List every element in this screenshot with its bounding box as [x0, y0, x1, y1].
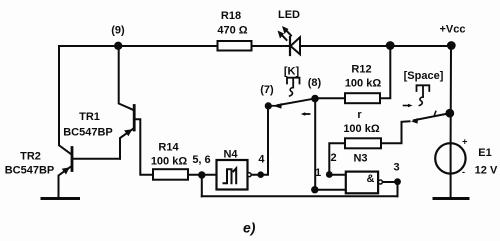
E1 source circle — [435, 143, 465, 173]
wire top rail left segment — [59, 45, 218, 47]
svg-text:TR2: TR2 — [20, 151, 41, 163]
node dot N3 pin1 — [311, 186, 318, 193]
wire bottom rail — [202, 195, 398, 197]
wire TR1 emitter — [120, 129, 134, 159]
svg-text:R12: R12 — [351, 64, 371, 76]
wire top rail LED to +Vcc — [252, 45, 291, 47]
LED arrow 1 — [280, 33, 287, 40]
gate N4 box — [217, 160, 248, 190]
svg-text:5, 6: 5, 6 — [192, 154, 210, 166]
node dot (9) — [114, 42, 122, 50]
svg-text:BC547BP: BC547BP — [63, 127, 113, 139]
svg-text:R14: R14 — [158, 142, 179, 154]
svg-text:LED: LED — [278, 9, 300, 21]
gate N3 output bubble — [378, 180, 382, 184]
wire N3 output — [383, 182, 398, 196]
svg-text:[Space]: [Space] — [404, 70, 444, 82]
svg-text:(8): (8) — [308, 77, 322, 89]
svg-text:&: & — [367, 173, 375, 185]
node dot N4 output — [257, 171, 264, 178]
switch K blade — [271, 105, 277, 107]
gate N3 box — [346, 172, 378, 194]
node dot space-switch right — [445, 109, 454, 118]
node dot N4 input — [198, 171, 205, 178]
svg-text:[K]: [K] — [284, 66, 300, 78]
resistor r 100k — [345, 138, 381, 148]
arrowhead TR1 emitter — [124, 129, 132, 136]
wire r resistor left to N3 pin2 — [329, 143, 346, 174]
svg-text:470 Ω: 470 Ω — [217, 25, 247, 37]
arrowhead K motion — [301, 112, 306, 116]
svg-text:N3: N3 — [353, 153, 367, 165]
svg-text:4: 4 — [258, 154, 265, 166]
svg-text:2: 2 — [330, 152, 336, 164]
resistor R12 100k — [345, 93, 380, 103]
resistor R18 470ohm — [218, 41, 252, 51]
transistor TR2 base bar — [71, 148, 74, 171]
switch Space blade — [414, 113, 449, 120]
LED diode symbol — [289, 37, 291, 55]
svg-text:+Vcc: +Vcc — [440, 24, 466, 36]
arrowhead TR2 emitter — [62, 167, 70, 174]
node dot r/N3 pin2 — [326, 171, 333, 178]
arrowhead LED ray2 — [282, 26, 289, 34]
svg-text:e): e) — [243, 220, 256, 236]
svg-text:1: 1 — [315, 167, 321, 179]
svg-text:E1: E1 — [478, 147, 491, 159]
arrowhead K blade tip — [275, 103, 282, 109]
node dot N3 output — [394, 178, 401, 185]
wire TR2 base — [74, 158, 121, 160]
gate N4 output bubble — [247, 173, 251, 177]
ground under TR2 — [42, 197, 79, 200]
node dot top R12 — [386, 41, 395, 50]
wire left rail (TR2 collector) — [59, 46, 72, 155]
wire R12 right to top node — [380, 46, 390, 98]
svg-text:100 kΩ: 100 kΩ — [345, 78, 382, 90]
switch Space button — [417, 85, 430, 91]
svg-text:100 kΩ: 100 kΩ — [343, 123, 380, 135]
svg-text:100 kΩ: 100 kΩ — [151, 156, 188, 168]
switch Space motion arrow — [404, 105, 410, 107]
svg-text:12 V: 12 V — [475, 165, 498, 177]
transistor TR1 base bar — [133, 106, 136, 131]
resistor R14 100k — [153, 169, 188, 180]
wire node 8 to R12 — [315, 97, 345, 99]
switch K motion arrow — [304, 113, 310, 115]
arrowhead Space motion — [408, 104, 413, 108]
svg-text:TR1: TR1 — [79, 111, 100, 123]
svg-text:3: 3 — [393, 162, 399, 174]
wire node below R14 down to bottom rail — [201, 175, 203, 197]
node dot top +Vcc — [447, 41, 456, 50]
wire R14 to N4 — [188, 174, 217, 176]
arrowhead LED ray1 — [278, 31, 285, 39]
svg-text:BC547BP: BC547BP — [5, 165, 55, 177]
svg-text:R18: R18 — [221, 10, 241, 22]
node dot (7) — [265, 102, 272, 109]
svg-text:(7): (7) — [260, 84, 274, 96]
svg-text:(9): (9) — [111, 25, 125, 37]
wire TR1 collector — [119, 46, 134, 110]
svg-text:r: r — [357, 109, 362, 121]
svg-text:-: - — [462, 167, 465, 177]
wire TR1 base to R14 — [136, 119, 154, 175]
wire node 8 vertical to N3 pin1 — [315, 99, 346, 190]
wire right rail — [450, 46, 452, 143]
wire TR2 emitter — [59, 167, 72, 198]
gate N4 pulse glyph — [224, 169, 232, 183]
node dot (8) — [311, 95, 319, 103]
wire N4 output to (7) — [251, 106, 268, 175]
LED arrow 2 — [285, 29, 292, 36]
arrowhead Space blade tip — [411, 118, 418, 124]
wire r resistor right to Space switch contact — [381, 121, 410, 143]
ground under E1 — [434, 197, 468, 200]
svg-text:+: + — [462, 137, 467, 147]
svg-text:N4: N4 — [223, 149, 238, 161]
switch K button — [287, 78, 300, 84]
